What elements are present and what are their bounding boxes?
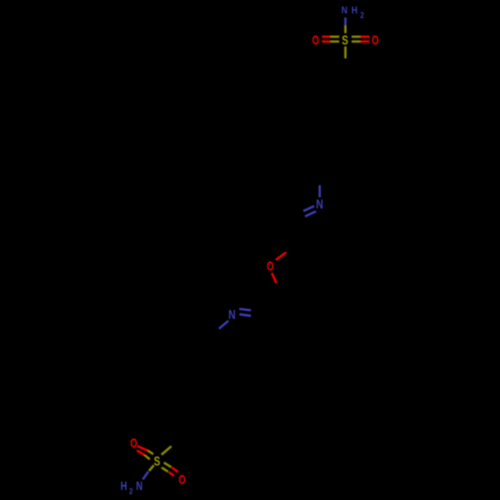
double bond S=O lower-right, O halves xyxy=(172,468,178,473)
bond S-N (bottom amide), N half xyxy=(143,472,149,480)
bond S-N (bottom amide), S half xyxy=(149,465,154,471)
svg-text:O: O xyxy=(312,34,319,48)
svg-text:S: S xyxy=(342,34,349,47)
svg-text:2: 2 xyxy=(360,10,364,20)
bond N2-CH2, N half xyxy=(219,321,228,329)
double bond S=O left, O halves xyxy=(322,36,331,38)
svg-text:H: H xyxy=(120,481,127,493)
bond O-C2 (furan), O half xyxy=(276,252,286,260)
svg-text:S: S xyxy=(154,455,161,468)
svg-text:N: N xyxy=(136,481,143,493)
bond C-N1 (imine 1), N half xyxy=(319,185,321,197)
svg-text:N: N xyxy=(341,5,347,16)
double bond S=O right, O halves xyxy=(360,36,369,38)
svg-text:O: O xyxy=(179,474,186,488)
svg-text:O: O xyxy=(372,34,379,48)
svg-text:H: H xyxy=(351,5,357,16)
double bond CH=N2, N halves xyxy=(239,309,251,310)
svg-text:N: N xyxy=(316,198,323,211)
double bond S=O right, S halves xyxy=(352,36,361,38)
bond N-S (top), S half xyxy=(344,25,346,33)
bond N-S (top), N half xyxy=(344,18,346,26)
amide group NH2 (top sulfonamide) xyxy=(341,5,364,20)
svg-text:O: O xyxy=(267,260,274,274)
double bond S=O left, S halves xyxy=(330,36,339,38)
amide group H2N (bottom sulfonamide) xyxy=(120,481,142,496)
bond S-C(aryl) top, S half xyxy=(344,47,346,59)
bond C(aryl)-S bottom, S half xyxy=(161,446,171,455)
double bond N1=CH, N halves xyxy=(303,206,314,211)
svg-text:2: 2 xyxy=(129,486,133,496)
double bond S=O lower-right, S halves xyxy=(164,463,171,468)
svg-text:N: N xyxy=(228,309,235,322)
double bond S=O upper-left, O halves xyxy=(137,446,148,451)
bond O-C5 (furan), O half xyxy=(272,273,277,283)
svg-text:O: O xyxy=(130,437,137,451)
double bond S=O upper-left, S halves xyxy=(148,451,153,455)
